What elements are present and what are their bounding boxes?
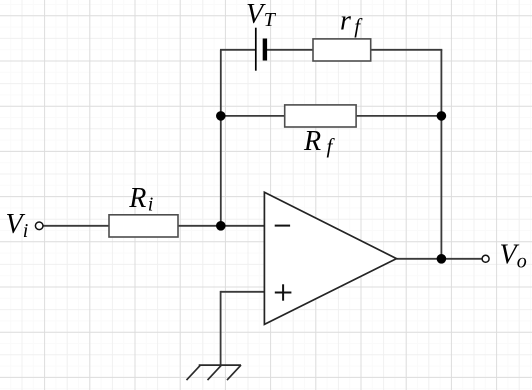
wire Rf branch left (221, 115, 285, 117)
svg-text:i: i (148, 194, 154, 216)
terminal output circle (482, 255, 489, 262)
battery VT (256, 28, 267, 71)
wire Ri to inverting node (178, 225, 264, 227)
node output junction (437, 254, 447, 264)
ground (187, 365, 242, 380)
label Vo (500, 240, 527, 273)
wire noninverting input horizontal (221, 291, 265, 293)
op-amp U1 (264, 192, 396, 324)
label VT (246, 0, 277, 31)
terminal input circle (35, 222, 43, 230)
svg-text:o: o (517, 251, 527, 273)
wire noninverting to ground vertical (220, 291, 222, 365)
label Vi (6, 209, 29, 242)
wire input from Vi terminal to resistor Ri (43, 225, 109, 227)
wire feedback left vertical (220, 50, 222, 226)
svg-text:f: f (354, 14, 363, 38)
plus sign at noninverting input (275, 284, 292, 300)
wire top branch left to battery (220, 49, 255, 51)
wire battery to resistor rf (267, 49, 313, 51)
node feedback right junction (437, 111, 447, 121)
wire output (397, 258, 482, 260)
resistor Rf (285, 105, 356, 127)
resistor Ri (109, 215, 178, 237)
minus sign at inverting input (275, 225, 290, 227)
svg-text:r: r (340, 6, 351, 37)
resistor rf (313, 39, 371, 61)
node feedback left junction (216, 111, 226, 121)
label Ri (128, 183, 153, 216)
svg-text:R: R (303, 126, 321, 157)
label Rf (303, 126, 336, 158)
wire rf to top-right corner (371, 49, 443, 51)
svg-text:i: i (23, 220, 29, 242)
label rf (340, 6, 363, 38)
svg-text:f: f (327, 134, 336, 158)
svg-text:R: R (128, 183, 146, 214)
svg-text:T: T (264, 9, 277, 31)
node inverting input junction (216, 221, 226, 231)
wire Rf branch right (356, 115, 441, 117)
wire right vertical to output node (440, 50, 442, 259)
